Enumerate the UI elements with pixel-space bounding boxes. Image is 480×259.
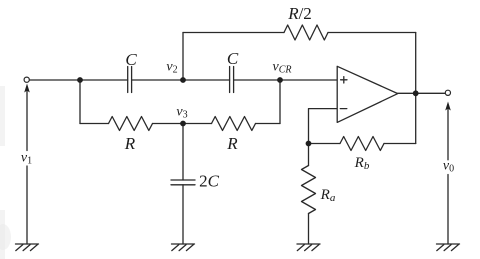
wire Rb left lead [309,143,341,145]
wire Rb right lead to output vertical [384,143,416,145]
wire R2 to vCR riser [256,123,281,125]
svg-text:v3: v3 [176,105,187,121]
wire 2C to ground [182,185,184,244]
junction node A [77,77,83,83]
ground v1 [16,244,39,251]
svg-text:v2: v2 [166,60,177,76]
svg-text:2C: 2C [199,172,220,191]
svg-text:v1: v1 [21,151,32,167]
ground Ra [297,244,320,251]
output terminal circle [445,90,450,95]
wire C2 to op-amp plus input [234,79,338,81]
input terminal circle [24,77,29,82]
wire op-amp output [398,92,446,94]
wire v1 source line upper [26,91,28,151]
capacitor C1 plates [127,67,129,93]
svg-text:R: R [226,134,238,153]
ground v0 [437,244,460,251]
wire Ra to ground [308,214,310,245]
wire node A down to lower branch [79,80,81,124]
scan smudge left edge [0,86,5,146]
svg-text:Ra: Ra [320,187,336,204]
wire input terminal to node A [29,79,127,81]
wire v1 source line lower [26,166,28,244]
scan smudge bottom-left corner [0,224,11,250]
resistor Rb [340,137,384,151]
wire R1 to v3 [153,123,212,125]
wire top branch left segment [183,32,284,34]
resistor R/2 [284,25,328,40]
resistor R1 [109,117,153,131]
wire vCR down to lower branch [279,80,281,124]
svg-text:C: C [125,50,137,69]
wire op-amp minus input [309,109,338,144]
scan smudge left edge lower [0,210,5,259]
arrow v0 up [445,102,451,111]
op-amp minus pin mark [340,108,347,110]
junction node vCR [277,77,283,83]
op-amp plus pin mark [341,77,347,83]
wire v0 source line lower [447,175,449,245]
wire right vertical R/2 to output node to Rb [415,33,417,144]
svg-text:C: C [227,49,239,68]
wire v3 down to 2C [182,124,184,181]
resistor Ra [302,166,316,214]
capacitor C2 plates [229,67,231,93]
resistor R2 [212,117,256,131]
capacitor 2C plates [171,179,195,181]
wire lower branch left lead [80,123,109,125]
svg-text:R: R [124,134,136,153]
junction node v2 [180,77,186,83]
wire top branch right segment [328,32,416,34]
junction output node [413,90,419,96]
wire C1 to node v2 [132,79,230,81]
junction node Ra/Rb [306,141,312,147]
arrow v1 up [24,84,30,93]
svg-text:vCR: vCR [273,60,292,76]
wire v0 source line upper [447,107,449,160]
junction node v3 [180,121,186,127]
svg-text:Rb: Rb [354,155,370,172]
ground 2C [172,244,195,251]
svg-text:v0: v0 [443,159,454,175]
op-amp U1 triangle [337,66,398,122]
svg-text:R/2: R/2 [287,4,312,23]
wire Ra top lead [308,144,310,166]
wire v2 up to top branch [182,33,184,81]
